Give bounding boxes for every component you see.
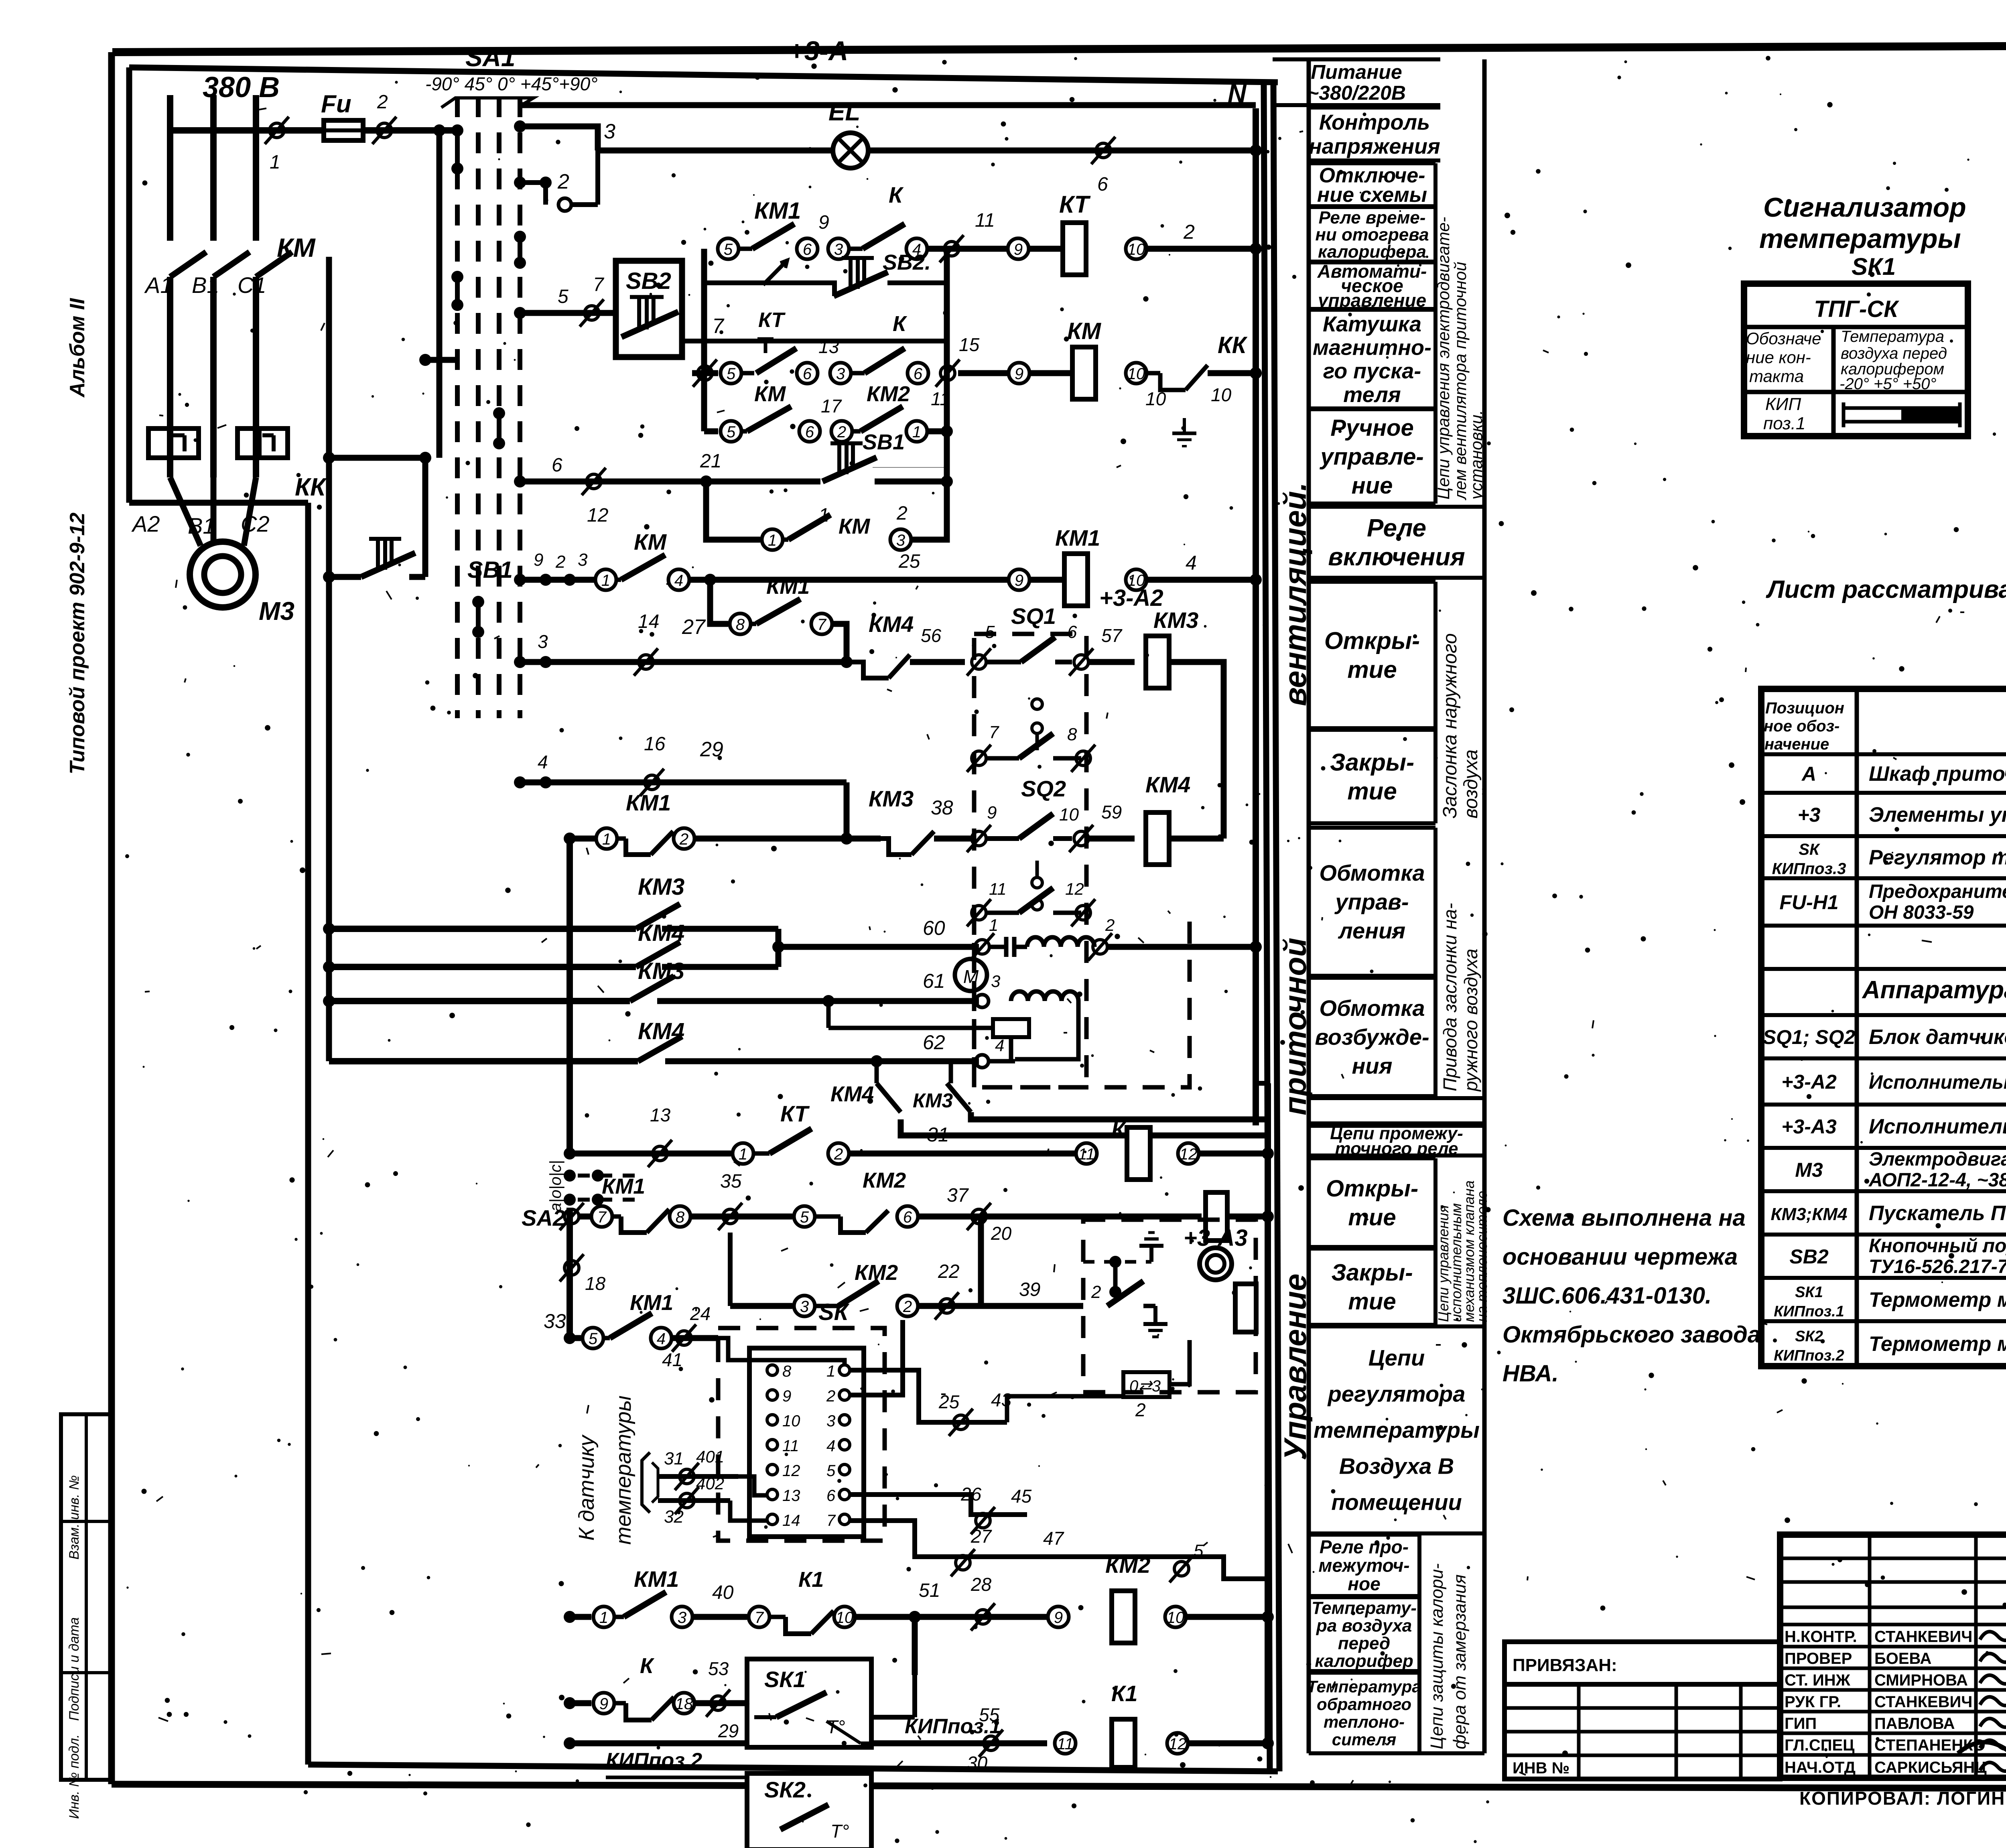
svg-text:К: К <box>889 182 904 207</box>
label KM2 <box>867 382 910 406</box>
motor M3 <box>190 542 256 607</box>
svg-text:3: 3 <box>991 972 1000 991</box>
label 380 В <box>203 71 280 104</box>
label SB1 panel <box>863 430 905 454</box>
svg-text:К датчику: К датчику <box>575 1434 599 1541</box>
svg-text:SК1: SК1 <box>764 1667 806 1692</box>
svg-text:фера от замерзания: фера от замерзания <box>1450 1574 1470 1749</box>
svg-text:теплоно-: теплоно- <box>1324 1712 1405 1731</box>
terminal 9 rung51 <box>1048 1606 1069 1627</box>
label K1 rung51 <box>798 1568 824 1592</box>
capacitor on wire 60 <box>989 937 1027 957</box>
wire SA1 to node 3 <box>514 120 598 150</box>
label C2 <box>241 511 270 536</box>
svg-text:ружного воздуха: ружного воздуха <box>1460 948 1481 1092</box>
SQ1 plunger dots <box>1032 699 1042 750</box>
svg-text:воздуха: воздуха <box>1460 749 1482 818</box>
svg-text:2: 2 <box>826 1387 835 1405</box>
contactor coil KM3 <box>1146 607 1198 688</box>
subcolumn Цепи управления исполнительным механизмом <box>1435 1158 1490 1325</box>
svg-text:59: 59 <box>1101 802 1122 822</box>
svg-text:Шкаф приточной системы ШР 1116: Шкаф приточной системы ШР 1116-69 <box>1869 762 2006 786</box>
terminal 1 rung31 <box>733 1143 753 1164</box>
label KM3 aux2 <box>638 958 684 984</box>
terminal 8 rung37 <box>670 1206 690 1227</box>
svg-text:Типовой проект 902-9-12: Типовой проект 902-9-12 <box>66 512 89 774</box>
terminal 10 KM1 rung <box>1126 569 1147 590</box>
svg-text:1: 1 <box>826 1363 835 1380</box>
label KM4 aux <box>638 920 684 946</box>
svg-text:Цепи: Цепи <box>1368 1345 1425 1371</box>
rung KM3 aux 61 <box>323 970 979 1007</box>
contact KM1 break on rung 38 <box>617 831 673 855</box>
svg-text:+3: +3 <box>1797 804 1820 826</box>
svg-text:КТ: КТ <box>1059 191 1091 218</box>
svg-text:КМ3;КМ4: КМ3;КМ4 <box>1771 1204 1848 1224</box>
svg-text:теля: теля <box>1343 383 1401 407</box>
svg-text:10: 10 <box>836 1609 854 1627</box>
svg-text:управ-: управ- <box>1334 889 1409 914</box>
svg-text:SК1: SК1 <box>1795 1284 1823 1301</box>
svg-text:Цепи защиты калори-: Цепи защиты калори- <box>1427 1563 1447 1749</box>
terminal 9b KT rung <box>1008 238 1029 259</box>
svg-text:39: 39 <box>1019 1279 1040 1300</box>
terminal 2 KM2 rung <box>831 421 852 442</box>
rung 5-7 from SA1 <box>514 274 616 327</box>
svg-text:11: 11 <box>1078 1145 1095 1163</box>
svg-text:Исполнительный механизм заслон: Исполнительный механизм заслонки МЭО-4/1… <box>1869 1072 2006 1093</box>
svg-text:перед: перед <box>1338 1633 1390 1653</box>
left control bus <box>326 273 332 1061</box>
slash 6 SQ1 <box>1067 622 1093 676</box>
slash 5 SQ1 <box>967 622 995 676</box>
svg-text:14: 14 <box>782 1512 800 1529</box>
svg-text:температуры: температуры <box>611 1395 636 1545</box>
label KM small <box>754 382 786 406</box>
wire SB2 out right <box>887 280 947 285</box>
svg-text:Н.КОНТР.: Н.КОНТР. <box>1785 1628 1857 1646</box>
label KK <box>295 473 327 501</box>
subcolumn Цепи защиты калорифера <box>1309 1535 1484 1753</box>
function row Закрытие 2 <box>1309 1249 1435 1325</box>
svg-text:4: 4 <box>995 1036 1004 1055</box>
svg-text:4: 4 <box>538 751 548 772</box>
svg-text:магнитно-: магнитно- <box>1313 336 1431 360</box>
svg-text:К: К <box>893 312 908 336</box>
svg-text:СМИРНОВА: СМИРНОВА <box>1874 1671 1968 1689</box>
terminal 3 K rung <box>830 363 851 384</box>
svg-text:КОПИРОВАЛ: ЛОГИНОВА: КОПИРОВАЛ: ЛОГИНОВА <box>1799 1788 2006 1809</box>
svg-text:6: 6 <box>1097 174 1108 195</box>
svg-text:62: 62 <box>923 1031 945 1054</box>
terminal 3 KT rung <box>828 238 849 259</box>
svg-text:тие: тие <box>1347 656 1397 683</box>
svg-text:СТАНКЕВИЧ: СТАНКЕВИЧ <box>1874 1628 1972 1646</box>
svg-text:6: 6 <box>805 423 814 441</box>
svg-text:6: 6 <box>914 365 923 383</box>
signal lamp EL <box>833 133 868 168</box>
label SB1 <box>467 557 513 583</box>
contactor KM main contact phase B <box>213 252 250 477</box>
svg-text:калорифера: калорифера <box>1318 242 1426 262</box>
svg-text:11: 11 <box>989 879 1007 898</box>
parts row KM3KM4 <box>1771 1202 2006 1225</box>
svg-text:16: 16 <box>644 733 666 755</box>
svg-text:10: 10 <box>1167 1609 1185 1627</box>
svg-text:КМ2: КМ2 <box>855 1261 898 1285</box>
feedback resistor on wire 61 <box>828 1001 1029 1037</box>
svg-text:Контроль: Контроль <box>1319 110 1430 134</box>
wire and slash 11 <box>927 210 1008 262</box>
parts row +3-A2 <box>1781 1071 2006 1093</box>
motor M3 feed wires <box>170 477 256 546</box>
svg-text:9: 9 <box>818 212 829 233</box>
svg-text:1: 1 <box>602 831 611 848</box>
svg-text:2: 2 <box>555 552 565 572</box>
svg-text:Кнопочный пост управления ПКЕ-: Кнопочный пост управления ПКЕ-212-2У3 <box>1869 1235 2006 1257</box>
wire SK top <box>718 1338 845 1365</box>
svg-text:приточной: приточной <box>1277 938 1313 1115</box>
svg-text:тие: тие <box>1348 1204 1396 1231</box>
svg-text:начение: начение <box>1764 735 1829 753</box>
terminal 12 rung55 <box>1167 1733 1188 1754</box>
SK wire 25-43 <box>850 1370 1012 1436</box>
SK1 table <box>1744 284 1968 436</box>
wire to KT coil <box>1029 246 1063 252</box>
KM1 aux sub-rung <box>710 580 847 662</box>
svg-text:Пускатель ПМЕ-083 ОСТ16.0.536.: Пускатель ПМЕ-083 ОСТ16.0.536.001-72 <box>1869 1202 2006 1225</box>
wire rung51 to bus <box>1186 1611 1274 1623</box>
svg-text:12: 12 <box>1065 879 1084 898</box>
svg-text:КМ1: КМ1 <box>766 575 810 599</box>
sensor wire 31 <box>658 1447 767 1495</box>
schematic bottom inner line <box>308 1765 1278 1771</box>
svg-text:SК2: SК2 <box>1795 1328 1823 1345</box>
SK wire 27-47 <box>850 1521 1064 1576</box>
svg-text:Предохранитель ПТ-10 Пл. Вст: Предохранитель ПТ-10 Пл. Вст. 1А <box>1869 881 2006 902</box>
svg-text:31: 31 <box>664 1449 684 1468</box>
parts row FU <box>1779 881 2006 923</box>
slash 10 SQ2 <box>1059 805 1093 852</box>
terminal 10 KT rung <box>1126 238 1147 259</box>
svg-text:12: 12 <box>587 505 608 526</box>
svg-text:КИПпоз.3: КИПпоз.3 <box>1772 860 1846 878</box>
svg-text:12: 12 <box>1169 1735 1187 1753</box>
relay coil K1 <box>1111 1681 1138 1767</box>
svg-text:5: 5 <box>826 1462 836 1480</box>
contact KM2 <box>852 406 903 431</box>
parts row empty <box>0 0 0 0</box>
slash terminal 1 on feed <box>265 117 289 173</box>
svg-text:4: 4 <box>674 572 683 589</box>
slash 1 wire60 <box>970 916 998 961</box>
svg-text:КМ: КМ <box>754 382 786 406</box>
svg-text:5: 5 <box>558 286 569 307</box>
node KM1 rung <box>689 574 716 586</box>
svg-text:SB1: SB1 <box>467 557 513 583</box>
svg-text:КМ: КМ <box>277 233 316 262</box>
coil on rung 37 <box>1206 1192 1274 1241</box>
relay coil KT <box>1059 191 1091 275</box>
contactor coil KM <box>1067 318 1102 399</box>
svg-text:Обмотка: Обмотка <box>1319 995 1425 1021</box>
svg-text:13: 13 <box>650 1105 671 1125</box>
svg-text:47: 47 <box>1043 1528 1064 1549</box>
svg-text:КМ3: КМ3 <box>638 958 684 984</box>
svg-text:А1: А1 <box>144 272 173 298</box>
label 3 <box>604 120 615 143</box>
svg-text:Регулятор температуры ПТРП-04: Регулятор температуры ПТРП-04 <box>1869 846 2006 869</box>
wire to SB1 contact <box>706 479 820 485</box>
terminal 6b K rung <box>908 363 928 384</box>
wire SK1 out <box>871 1675 915 1717</box>
rung KM4 aux 60 <box>323 942 778 973</box>
svg-text:SА2: SА2 <box>522 1205 565 1231</box>
svg-text:12: 12 <box>782 1462 800 1480</box>
label EL <box>828 98 860 126</box>
svg-text:ра воздуха: ра воздуха <box>1316 1616 1412 1635</box>
svg-text:7: 7 <box>989 723 999 742</box>
sensor wire 32 <box>658 1474 767 1527</box>
svg-text:Закры-: Закры- <box>1330 749 1414 776</box>
terminal 5 K rung <box>721 363 741 384</box>
label +3-A3 <box>1184 1225 1248 1251</box>
contact 11-12 in block <box>967 879 1095 926</box>
contact KM4 lower <box>830 1061 1268 1135</box>
label 56 <box>921 625 942 646</box>
svg-text:Схема выполнена на: Схема выполнена на <box>1502 1205 1746 1231</box>
wire 60 <box>772 917 979 953</box>
label K contact2 <box>893 312 908 336</box>
svg-text:Откры-: Откры- <box>1326 1176 1418 1202</box>
parts row SK <box>1772 841 2006 878</box>
wire 25 to coil <box>710 551 1008 580</box>
riser 29 down <box>844 782 850 839</box>
label KM1 rung37 <box>602 1174 645 1198</box>
wire fuse to SA1 <box>363 127 457 134</box>
label KM1 rung38 <box>626 790 671 815</box>
contact SQ1 <box>986 637 1072 662</box>
svg-text:5: 5 <box>800 1208 809 1226</box>
function row Реле времени <box>1309 207 1435 262</box>
svg-text:КТ: КТ <box>758 309 786 332</box>
svg-text:401: 401 <box>696 1447 724 1466</box>
bus tap from phase C <box>326 257 332 273</box>
svg-text:тие: тие <box>1348 1288 1396 1314</box>
label C1 <box>238 272 266 298</box>
svg-text:С1: С1 <box>238 272 266 298</box>
svg-text:5: 5 <box>1194 1541 1204 1561</box>
svg-text:18: 18 <box>675 1695 693 1713</box>
parts row A <box>1801 762 2006 786</box>
svg-text:Октябрьского завода: Октябрьского завода <box>1502 1322 1760 1348</box>
SA1 contact dots <box>451 124 526 638</box>
label B1 <box>192 272 219 298</box>
svg-text:6: 6 <box>903 1208 912 1226</box>
regulator SK dashed outline <box>718 1328 885 1541</box>
bypass rung KM <box>706 481 947 550</box>
sensor block BDI-6 dashed outline <box>974 634 1086 1087</box>
parts row +3-A3 <box>1781 1115 2006 1138</box>
contactor KM main contact phase A <box>170 252 206 477</box>
svg-text:напряжения: напряжения <box>1309 134 1440 158</box>
function row Реле промежуточное <box>1309 1535 1419 1596</box>
svg-text:Питание: Питание <box>1311 61 1402 83</box>
function row blank <box>1309 1098 1484 1123</box>
rung KM1 from SA1 <box>514 574 595 586</box>
svg-text:К: К <box>1111 1117 1127 1142</box>
svg-text:КИПпоз.2: КИПпоз.2 <box>1774 1347 1844 1364</box>
svg-text:САРКИСЬЯНЦ: САРКИСЬЯНЦ <box>1874 1759 1987 1777</box>
svg-text:2: 2 <box>834 1145 843 1163</box>
svg-text:НВА.: НВА. <box>1502 1361 1559 1387</box>
label KIPpoz2 <box>606 1749 774 1793</box>
svg-text:1: 1 <box>601 572 610 589</box>
function row Контроль напряжения <box>1309 108 1440 160</box>
rung 37 entry <box>566 1208 573 1338</box>
label SK <box>818 1299 850 1325</box>
label SA1 <box>465 43 516 72</box>
function column outer <box>1309 59 1484 1753</box>
inductor winding on wire 60 <box>1027 937 1094 947</box>
svg-text:12: 12 <box>1180 1145 1198 1163</box>
label 4 right <box>1186 552 1197 574</box>
svg-text:Термометр манометрический ТПГ-: Термометр манометрический ТПГ-СК <box>1869 1332 2006 1356</box>
svg-text:Исполнительный механизм клапан: Исполнительный механизм клапана ПР-1М <box>1869 1115 2006 1138</box>
wire KM4 coil up <box>1169 836 1224 842</box>
label SA2 slash 18 <box>560 1254 606 1294</box>
push button SB2 second contact <box>834 258 888 296</box>
svg-text:Заслонка наружного: Заслонка наружного <box>1440 633 1461 818</box>
svg-text:КМ3: КМ3 <box>913 1089 953 1112</box>
svg-text:SА1: SА1 <box>465 43 516 72</box>
svg-text:9: 9 <box>1054 1609 1063 1627</box>
contact K2 on K rung <box>851 348 905 373</box>
rung 6-12 from SA1 <box>514 455 704 526</box>
svg-text:обратного: обратного <box>1317 1695 1411 1714</box>
terminal 9 KM1 rung <box>1009 569 1029 590</box>
node 21 <box>700 451 721 487</box>
svg-text:КМ2: КМ2 <box>863 1168 906 1192</box>
svg-text:Цепи управления электродвигате: Цепи управления электродвигате- <box>1434 217 1453 500</box>
terminal 6 KM2 rung <box>799 421 820 442</box>
svg-text:КМ1: КМ1 <box>630 1291 673 1315</box>
label K rung53 <box>640 1654 655 1678</box>
svg-text:ПАВЛОВА: ПАВЛОВА <box>1874 1715 1955 1732</box>
terminal 1 KM2 rung <box>906 421 927 442</box>
function row Температура обратного <box>1307 1673 1421 1753</box>
svg-text:57: 57 <box>1101 625 1123 646</box>
svg-text:402: 402 <box>696 1474 724 1493</box>
label B2 <box>188 513 215 538</box>
svg-text:включения: включения <box>1328 543 1465 571</box>
svg-text:А2: А2 <box>131 511 160 536</box>
svg-text:4: 4 <box>657 1330 666 1348</box>
parts header Аппаратура <box>1862 976 2006 1004</box>
label K on KT rung <box>889 182 904 207</box>
parts row SK1 <box>1774 1284 2006 1320</box>
function row Закрытие 1 <box>1309 730 1435 823</box>
cam switch SA1 dashed contact column <box>457 96 520 718</box>
svg-text:1: 1 <box>599 1609 608 1627</box>
svg-text:ОН 8033-59: ОН 8033-59 <box>1869 902 1974 923</box>
contact K on KT rung <box>849 224 905 249</box>
svg-text:-90° 45° 0° +45°+90°: -90° 45° 0° +45°+90° <box>425 73 598 94</box>
svg-text:4: 4 <box>1186 552 1197 574</box>
svg-text:СТ. ИНЖ: СТ. ИНЖ <box>1785 1671 1851 1689</box>
svg-text:Откры-: Откры- <box>1324 628 1420 654</box>
label 17 <box>821 396 842 416</box>
svg-text:СТАНКЕВИЧ: СТАНКЕВИЧ <box>1874 1693 1972 1711</box>
terminal 6 rung37 <box>897 1206 918 1227</box>
svg-text:помещении: помещении <box>1331 1490 1462 1515</box>
terminal 4 KM1 rung <box>668 569 689 590</box>
wire KT to N <box>1147 243 1262 255</box>
function row Отключение схемы <box>1309 163 1435 207</box>
svg-text:SВ2: SВ2 <box>1789 1245 1828 1268</box>
slash 3 wire61 <box>976 972 1000 1007</box>
svg-text:КМ2: КМ2 <box>867 382 910 406</box>
terminal 6 KT rung <box>797 238 818 259</box>
sensor brace <box>642 1452 658 1513</box>
svg-text:КМ3: КМ3 <box>638 874 684 900</box>
svg-text:15: 15 <box>959 334 980 355</box>
rung 51 <box>564 1566 770 1627</box>
wire 37 <box>918 1185 1202 1244</box>
svg-text:22: 22 <box>938 1261 959 1282</box>
svg-text:ное обоз-: ное обоз- <box>1764 717 1840 735</box>
contact KM1 arrowed on KT rung <box>739 224 794 285</box>
svg-text:3: 3 <box>800 1298 809 1316</box>
SK terminals right 1-7 <box>826 1363 850 1529</box>
svg-text:9: 9 <box>987 803 997 822</box>
function row Питание <box>1273 59 1440 105</box>
contact K break on rung 53 <box>614 1697 674 1720</box>
svg-text:Т°: Т° <box>830 1821 849 1842</box>
svg-text:3: 3 <box>826 1412 835 1430</box>
label A2 <box>131 511 160 536</box>
sheet outer border left <box>108 52 115 1784</box>
title block signature labels <box>1785 1628 1987 1777</box>
svg-text:61: 61 <box>923 970 945 992</box>
contact KM on KM1 rung <box>616 555 665 580</box>
contact KM4 break on rung 27 <box>847 655 965 678</box>
cabinet A frame bottom step <box>129 500 308 506</box>
SQ2 plunger dots <box>1032 861 1042 910</box>
subcolumn Заслонка наружного воздуха <box>1435 582 1482 823</box>
svg-text:10: 10 <box>1211 384 1232 405</box>
push button SB1 panel <box>822 443 877 481</box>
svg-text:такта: такта <box>1749 367 1804 386</box>
contact KT timed on K rung <box>741 339 796 373</box>
label SQ2 <box>1021 776 1066 801</box>
SK wire 26-45 <box>850 1484 1032 1534</box>
svg-text:К1: К1 <box>1111 1681 1138 1706</box>
svg-text:вентиляцией.: вентиляцией. <box>1277 482 1313 706</box>
svg-text:Fu: Fu <box>321 90 351 118</box>
svg-text:31: 31 <box>927 1123 949 1146</box>
wire 31 <box>849 1123 1075 1153</box>
SK1 table title <box>1759 192 1966 280</box>
svg-text:ИНВ №: ИНВ № <box>1513 1759 1569 1777</box>
svg-text:10: 10 <box>782 1412 800 1430</box>
rung 53 <box>564 1693 614 1714</box>
svg-text:Электродвигатель приточного ве: Электродвигатель приточного вентилятора <box>1869 1149 2006 1170</box>
slash 2 wire60 <box>1088 916 1115 961</box>
svg-text:SК: SК <box>1799 841 1820 859</box>
rung 55 right <box>871 1704 1047 1773</box>
svg-text:Закры-: Закры- <box>1331 1259 1413 1285</box>
